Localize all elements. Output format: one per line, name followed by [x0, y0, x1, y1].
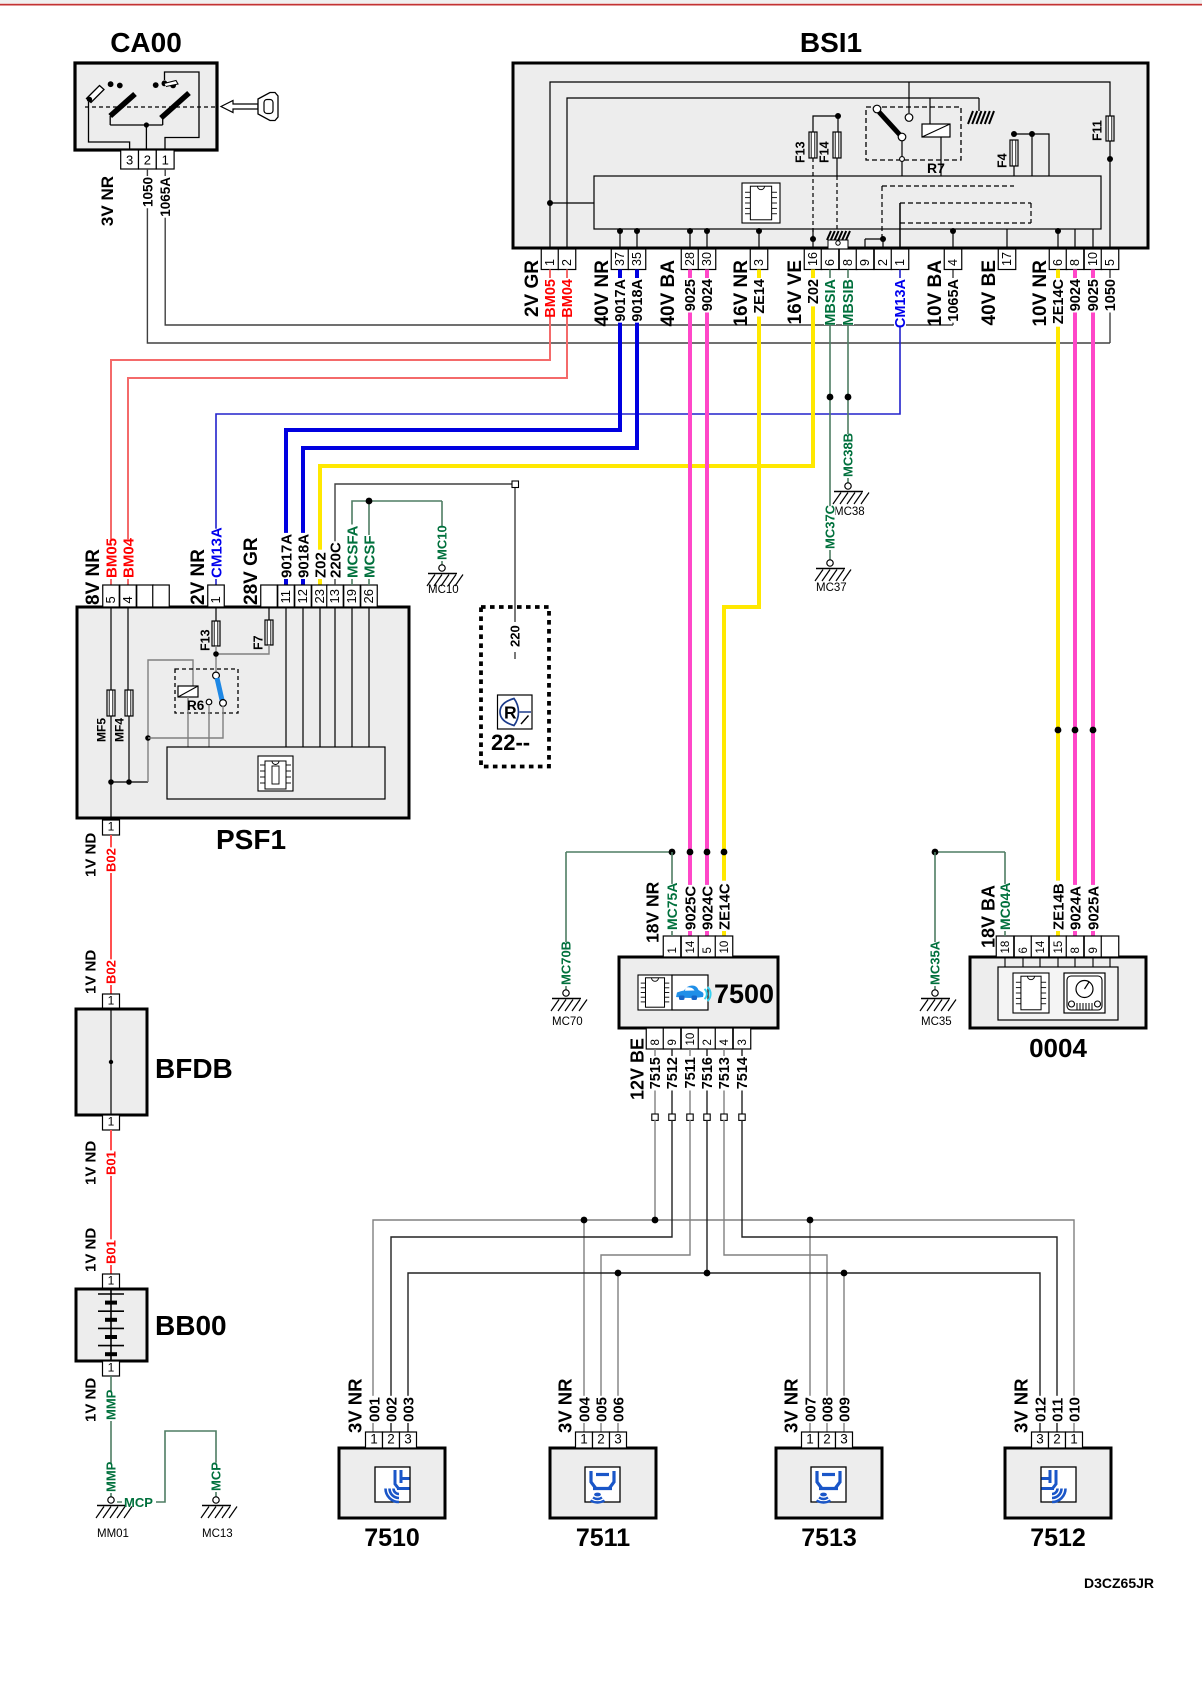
- svg-text:1: 1: [370, 1432, 378, 1447]
- svg-text:7500: 7500: [714, 979, 774, 1009]
- svg-text:MBSIA: MBSIA: [823, 278, 839, 325]
- svg-text:18: 18: [1000, 941, 1012, 954]
- svg-text:2V GR: 2V GR: [522, 260, 543, 317]
- svg-text:14: 14: [1035, 940, 1047, 953]
- svg-text:7513: 7513: [801, 1524, 857, 1552]
- svg-text:F13: F13: [199, 629, 213, 651]
- svg-text:19: 19: [344, 589, 359, 603]
- svg-text:2V NR: 2V NR: [188, 549, 209, 605]
- svg-text:9025: 9025: [683, 279, 699, 311]
- svg-text:MMP: MMP: [104, 1389, 119, 1420]
- svg-text:002: 002: [383, 1397, 400, 1422]
- svg-text:MC13: MC13: [202, 1528, 233, 1540]
- svg-text:16V VE: 16V VE: [785, 260, 806, 324]
- svg-text:007: 007: [802, 1397, 819, 1422]
- svg-text:9024A: 9024A: [1067, 886, 1084, 930]
- svg-text:9024: 9024: [700, 279, 716, 311]
- svg-text:1V ND: 1V ND: [82, 833, 99, 877]
- svg-text:3: 3: [614, 1432, 622, 1447]
- svg-text:2: 2: [823, 1432, 831, 1447]
- svg-text:8V NR: 8V NR: [83, 549, 104, 605]
- svg-text:3V NR: 3V NR: [555, 1379, 576, 1434]
- svg-text:MC10: MC10: [435, 525, 450, 560]
- svg-text:9024: 9024: [1068, 279, 1084, 311]
- svg-text:001: 001: [366, 1397, 383, 1422]
- svg-text:16: 16: [806, 252, 820, 266]
- svg-text:8: 8: [841, 259, 855, 266]
- svg-text:7513: 7513: [717, 1057, 733, 1089]
- svg-text:35: 35: [630, 252, 644, 266]
- svg-text:10: 10: [685, 1033, 697, 1046]
- svg-text:10V NR: 10V NR: [1030, 260, 1051, 327]
- svg-text:005: 005: [593, 1397, 610, 1422]
- svg-text:1: 1: [893, 259, 907, 266]
- svg-text:MF5: MF5: [94, 718, 108, 742]
- svg-text:009: 009: [836, 1397, 853, 1422]
- svg-text:D3CZ65JR: D3CZ65JR: [1084, 1575, 1154, 1591]
- svg-text:CM13A: CM13A: [893, 278, 909, 328]
- svg-text:220: 220: [508, 625, 523, 647]
- svg-text:010: 010: [1066, 1397, 1083, 1422]
- svg-text:5: 5: [1103, 259, 1117, 266]
- svg-text:006: 006: [610, 1397, 627, 1422]
- svg-text:ZE14C: ZE14C: [1051, 278, 1067, 324]
- svg-text:9025A: 9025A: [1085, 886, 1102, 930]
- svg-text:BM05: BM05: [103, 538, 120, 578]
- svg-text:BM05: BM05: [543, 279, 559, 318]
- svg-text:37: 37: [613, 252, 627, 266]
- svg-text:7510: 7510: [364, 1524, 420, 1552]
- svg-text:1065A: 1065A: [946, 278, 962, 321]
- svg-text:5: 5: [103, 596, 118, 603]
- svg-text:1: 1: [1070, 1432, 1078, 1447]
- svg-text:4: 4: [719, 1039, 731, 1046]
- svg-text:26: 26: [361, 589, 376, 603]
- svg-text:ZE14C: ZE14C: [716, 883, 733, 930]
- svg-text:R6: R6: [187, 698, 205, 713]
- svg-text:MC04A: MC04A: [997, 883, 1013, 930]
- svg-text:23: 23: [312, 589, 327, 603]
- svg-text:22--: 22--: [491, 730, 530, 755]
- svg-text:2: 2: [560, 259, 574, 266]
- svg-text:MC75A: MC75A: [664, 883, 680, 930]
- svg-text:40V NR: 40V NR: [592, 260, 613, 327]
- svg-text:1: 1: [806, 1432, 814, 1447]
- svg-text:1: 1: [580, 1432, 588, 1447]
- svg-text:1050: 1050: [1103, 279, 1119, 311]
- svg-text:F4: F4: [996, 153, 1010, 168]
- svg-text:1: 1: [108, 1274, 115, 1288]
- svg-text:14: 14: [685, 940, 697, 953]
- svg-text:1: 1: [108, 1361, 115, 1375]
- svg-text:7511: 7511: [683, 1057, 699, 1088]
- svg-text:7514: 7514: [735, 1057, 751, 1089]
- svg-text:7516: 7516: [700, 1057, 716, 1089]
- svg-text:MC70B: MC70B: [559, 941, 574, 985]
- svg-text:3: 3: [126, 153, 133, 168]
- svg-text:MCP: MCP: [124, 1495, 153, 1510]
- svg-text:9024C: 9024C: [699, 886, 716, 930]
- svg-text:CM13A: CM13A: [208, 527, 225, 578]
- svg-text:011: 011: [1049, 1398, 1066, 1422]
- svg-text:MCSF: MCSF: [361, 536, 378, 579]
- svg-text:3V NR: 3V NR: [1011, 1379, 1032, 1434]
- svg-text:220C: 220C: [327, 542, 344, 578]
- svg-text:9018A: 9018A: [630, 278, 646, 321]
- svg-text:40V BE: 40V BE: [979, 260, 1000, 325]
- svg-text:MC37C: MC37C: [823, 504, 838, 549]
- svg-text:BSI1: BSI1: [800, 27, 862, 58]
- svg-text:8: 8: [650, 1039, 662, 1045]
- svg-text:9: 9: [858, 259, 872, 266]
- svg-text:9018A: 9018A: [295, 534, 312, 578]
- svg-text:1V ND: 1V ND: [82, 1378, 99, 1422]
- svg-text:8: 8: [1068, 259, 1082, 266]
- svg-text:MC70: MC70: [552, 1016, 583, 1028]
- svg-text:9: 9: [1088, 947, 1100, 953]
- svg-text:1: 1: [208, 596, 223, 603]
- svg-text:6: 6: [1051, 259, 1065, 266]
- svg-text:MC37: MC37: [816, 582, 847, 594]
- svg-text:1065A: 1065A: [158, 177, 173, 217]
- svg-text:MMP: MMP: [104, 1461, 119, 1492]
- svg-text:F13: F13: [794, 141, 808, 163]
- svg-text:B01: B01: [104, 1151, 119, 1175]
- svg-text:B02: B02: [104, 960, 119, 984]
- svg-text:3V NR: 3V NR: [781, 1379, 802, 1434]
- svg-text:F7: F7: [252, 635, 266, 650]
- svg-text:MM01: MM01: [97, 1528, 129, 1540]
- svg-text:3: 3: [752, 259, 766, 266]
- svg-text:3V NR: 3V NR: [345, 1379, 366, 1434]
- svg-text:28: 28: [683, 252, 697, 266]
- svg-text:1V ND: 1V ND: [82, 950, 99, 994]
- svg-text:1: 1: [162, 153, 169, 168]
- svg-text:R: R: [504, 703, 517, 723]
- svg-text:MCP: MCP: [209, 1462, 224, 1491]
- svg-text:6: 6: [1018, 947, 1030, 953]
- svg-text:008: 008: [819, 1397, 836, 1422]
- svg-text:MC38B: MC38B: [841, 433, 856, 477]
- svg-text:4: 4: [120, 596, 135, 603]
- svg-text:BB00: BB00: [155, 1310, 227, 1341]
- svg-text:10: 10: [719, 941, 731, 954]
- svg-text:1: 1: [108, 994, 115, 1008]
- svg-text:3: 3: [737, 1039, 749, 1045]
- svg-text:9017A: 9017A: [613, 278, 629, 321]
- svg-text:12: 12: [295, 589, 310, 603]
- svg-text:MC38: MC38: [834, 506, 865, 518]
- svg-text:15: 15: [1053, 941, 1065, 954]
- svg-text:2: 2: [387, 1432, 395, 1447]
- svg-text:BFDB: BFDB: [155, 1053, 233, 1084]
- svg-text:B02: B02: [104, 848, 119, 872]
- svg-text:16V NR: 16V NR: [731, 260, 752, 327]
- svg-text:003: 003: [400, 1397, 417, 1422]
- svg-text:30: 30: [700, 252, 714, 266]
- svg-text:MF4: MF4: [112, 718, 126, 742]
- svg-text:012: 012: [1032, 1397, 1049, 1422]
- svg-text:7512: 7512: [665, 1057, 681, 1089]
- svg-text:1V ND: 1V ND: [82, 1228, 99, 1272]
- svg-text:MC35A: MC35A: [928, 940, 943, 985]
- svg-text:MC10: MC10: [428, 584, 459, 596]
- svg-text:2: 2: [1053, 1432, 1061, 1447]
- svg-text:Z02: Z02: [806, 279, 822, 304]
- svg-text:7515: 7515: [648, 1057, 664, 1089]
- svg-text:0004: 0004: [1029, 1033, 1087, 1063]
- svg-text:MCSFA: MCSFA: [344, 525, 361, 578]
- svg-text:11: 11: [278, 590, 293, 604]
- svg-text:ZE14B: ZE14B: [1050, 883, 1067, 930]
- svg-text:R7: R7: [927, 160, 945, 176]
- svg-text:F14: F14: [818, 141, 832, 163]
- svg-text:1050: 1050: [140, 177, 155, 207]
- svg-text:PSF1: PSF1: [216, 824, 286, 855]
- svg-text:BM04: BM04: [120, 537, 137, 578]
- svg-text:1: 1: [108, 1115, 115, 1129]
- svg-text:B01: B01: [104, 1240, 119, 1264]
- svg-text:40V BA: 40V BA: [658, 260, 679, 327]
- svg-text:6: 6: [823, 259, 837, 266]
- svg-text:18V BA: 18V BA: [978, 885, 998, 948]
- svg-text:1: 1: [108, 820, 115, 834]
- svg-text:MC35: MC35: [921, 1016, 952, 1028]
- svg-text:1: 1: [543, 259, 557, 266]
- svg-text:BM04: BM04: [560, 279, 576, 318]
- svg-text:10: 10: [1086, 252, 1100, 266]
- svg-text:3: 3: [404, 1432, 412, 1447]
- svg-text:5: 5: [702, 947, 714, 953]
- svg-text:F11: F11: [1091, 120, 1105, 141]
- svg-text:7511: 7511: [576, 1524, 630, 1552]
- svg-text:17: 17: [1000, 252, 1014, 266]
- svg-text:18V NR: 18V NR: [642, 881, 662, 943]
- svg-text:3V NR: 3V NR: [98, 176, 117, 226]
- svg-text:8: 8: [1070, 947, 1082, 953]
- svg-text:28V GR: 28V GR: [241, 537, 262, 605]
- svg-text:9017A: 9017A: [278, 534, 295, 578]
- svg-text:MBSIB: MBSIB: [841, 279, 857, 326]
- svg-text:2: 2: [597, 1432, 605, 1447]
- svg-text:2: 2: [876, 259, 890, 266]
- svg-text:9025C: 9025C: [682, 886, 699, 930]
- svg-text:9025: 9025: [1086, 279, 1102, 311]
- svg-text:1V ND: 1V ND: [82, 1141, 99, 1185]
- svg-text:3: 3: [1036, 1432, 1044, 1447]
- svg-text:2: 2: [144, 153, 151, 168]
- svg-text:9: 9: [667, 1039, 679, 1045]
- svg-text:7512: 7512: [1030, 1524, 1086, 1552]
- svg-text:2: 2: [702, 1039, 714, 1045]
- svg-text:3: 3: [840, 1432, 848, 1447]
- svg-text:12V BE: 12V BE: [627, 1038, 647, 1100]
- svg-text:004: 004: [576, 1396, 593, 1422]
- svg-text:10V BA: 10V BA: [925, 260, 946, 327]
- svg-text:1: 1: [667, 947, 679, 953]
- svg-text:4: 4: [946, 259, 960, 266]
- svg-text:CA00: CA00: [110, 27, 182, 58]
- svg-text:ZE14: ZE14: [752, 279, 768, 314]
- svg-text:13: 13: [327, 589, 342, 603]
